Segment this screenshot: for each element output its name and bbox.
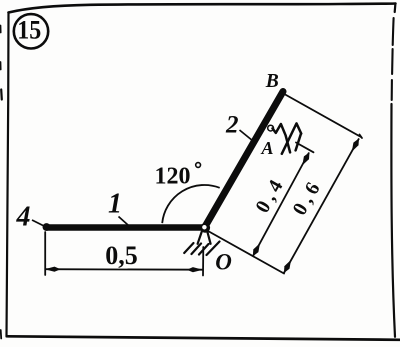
svg-text:15: 15 <box>17 16 41 45</box>
svg-text:2: 2 <box>225 112 239 139</box>
svg-text:4: 4 <box>16 202 31 233</box>
svg-text:B: B <box>265 71 279 92</box>
svg-text:0,5: 0,5 <box>105 241 138 270</box>
svg-text:120: 120 <box>155 164 191 190</box>
svg-text:A: A <box>261 138 274 158</box>
svg-text:1: 1 <box>108 189 122 220</box>
svg-text:O: O <box>215 250 232 275</box>
